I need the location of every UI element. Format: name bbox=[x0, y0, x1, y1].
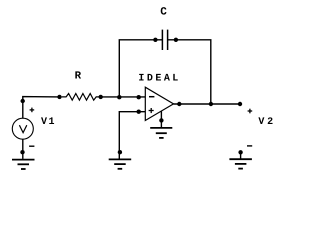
voltage source V1 bbox=[12, 118, 33, 139]
plus sign V2 bbox=[248, 109, 253, 114]
node op-amp ground pin bbox=[159, 118, 163, 122]
node middle ground junction bbox=[118, 150, 122, 154]
resistor R bbox=[57, 94, 103, 101]
node op-amp output pin bbox=[177, 102, 181, 106]
wire op-amp ground stub bbox=[160, 111, 162, 128]
node right ground terminal bbox=[238, 150, 242, 154]
op-amp U1 bbox=[145, 87, 173, 120]
wire V1 bottom lead bbox=[22, 139, 24, 159]
ground below V1 bbox=[12, 160, 35, 169]
plus sign V1 bbox=[30, 108, 35, 113]
wire resistor to op-amp inverting input bbox=[101, 96, 146, 98]
node output terminal bbox=[238, 102, 242, 106]
svg-text:V1: V1 bbox=[41, 117, 55, 128]
svg-text:R: R bbox=[75, 71, 82, 83]
wire V1 top lead to input row bbox=[23, 97, 60, 119]
node inverting input junction bbox=[117, 95, 121, 99]
svg-text:C: C bbox=[160, 7, 167, 19]
ground op-amp bbox=[150, 128, 172, 138]
node op-amp non-inverting pin bbox=[137, 110, 141, 114]
node feedback output junction bbox=[209, 102, 213, 106]
wire feedback top right segment and right riser bbox=[168, 40, 211, 104]
node op-amp inverting pin bbox=[137, 95, 141, 99]
wire non-inverting input to ground bbox=[119, 112, 145, 159]
node V1 positive terminal bbox=[21, 99, 25, 103]
svg-text:IDEAL: IDEAL bbox=[138, 74, 178, 85]
svg-text:V2: V2 bbox=[258, 117, 273, 128]
ground right bbox=[229, 159, 252, 168]
capacitor C bbox=[153, 30, 178, 50]
minus sign V1 bbox=[29, 145, 34, 147]
node V1 negative terminal bbox=[20, 150, 24, 154]
wire right ground stub bbox=[240, 152, 242, 159]
minus sign V2 ground bbox=[247, 145, 252, 147]
ground below non-inverting input bbox=[109, 159, 132, 168]
wire output bbox=[174, 103, 241, 105]
wire feedback left riser and top left segment bbox=[119, 40, 162, 97]
